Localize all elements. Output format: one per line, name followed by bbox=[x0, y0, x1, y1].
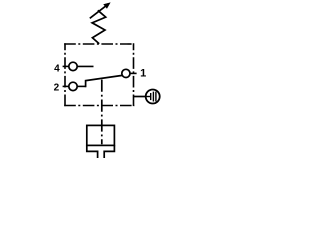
actuator plunger bbox=[87, 145, 115, 158]
pin 1 terminal bbox=[122, 69, 137, 77]
svg-text:2: 2 bbox=[54, 83, 60, 94]
switch enclosure (dash-dot boundary box) bbox=[64, 43, 134, 106]
wire to connector bbox=[134, 96, 147, 98]
connector/plug symbol bbox=[146, 90, 160, 104]
resistor R1 (variable resistor / rheostat) bbox=[92, 10, 106, 44]
svg-text:1: 1 bbox=[140, 68, 146, 80]
rheostat arrow bbox=[90, 3, 110, 18]
switch arm (contact 2 to 1) bbox=[86, 75, 123, 87]
pin 4 terminal bbox=[63, 62, 94, 70]
pin 2 terminal bbox=[63, 82, 86, 90]
actuator body (pedal/plunger box) bbox=[87, 125, 115, 145]
svg-text:4: 4 bbox=[54, 64, 60, 75]
mechanical link (dash-dot) bbox=[101, 80, 103, 145]
